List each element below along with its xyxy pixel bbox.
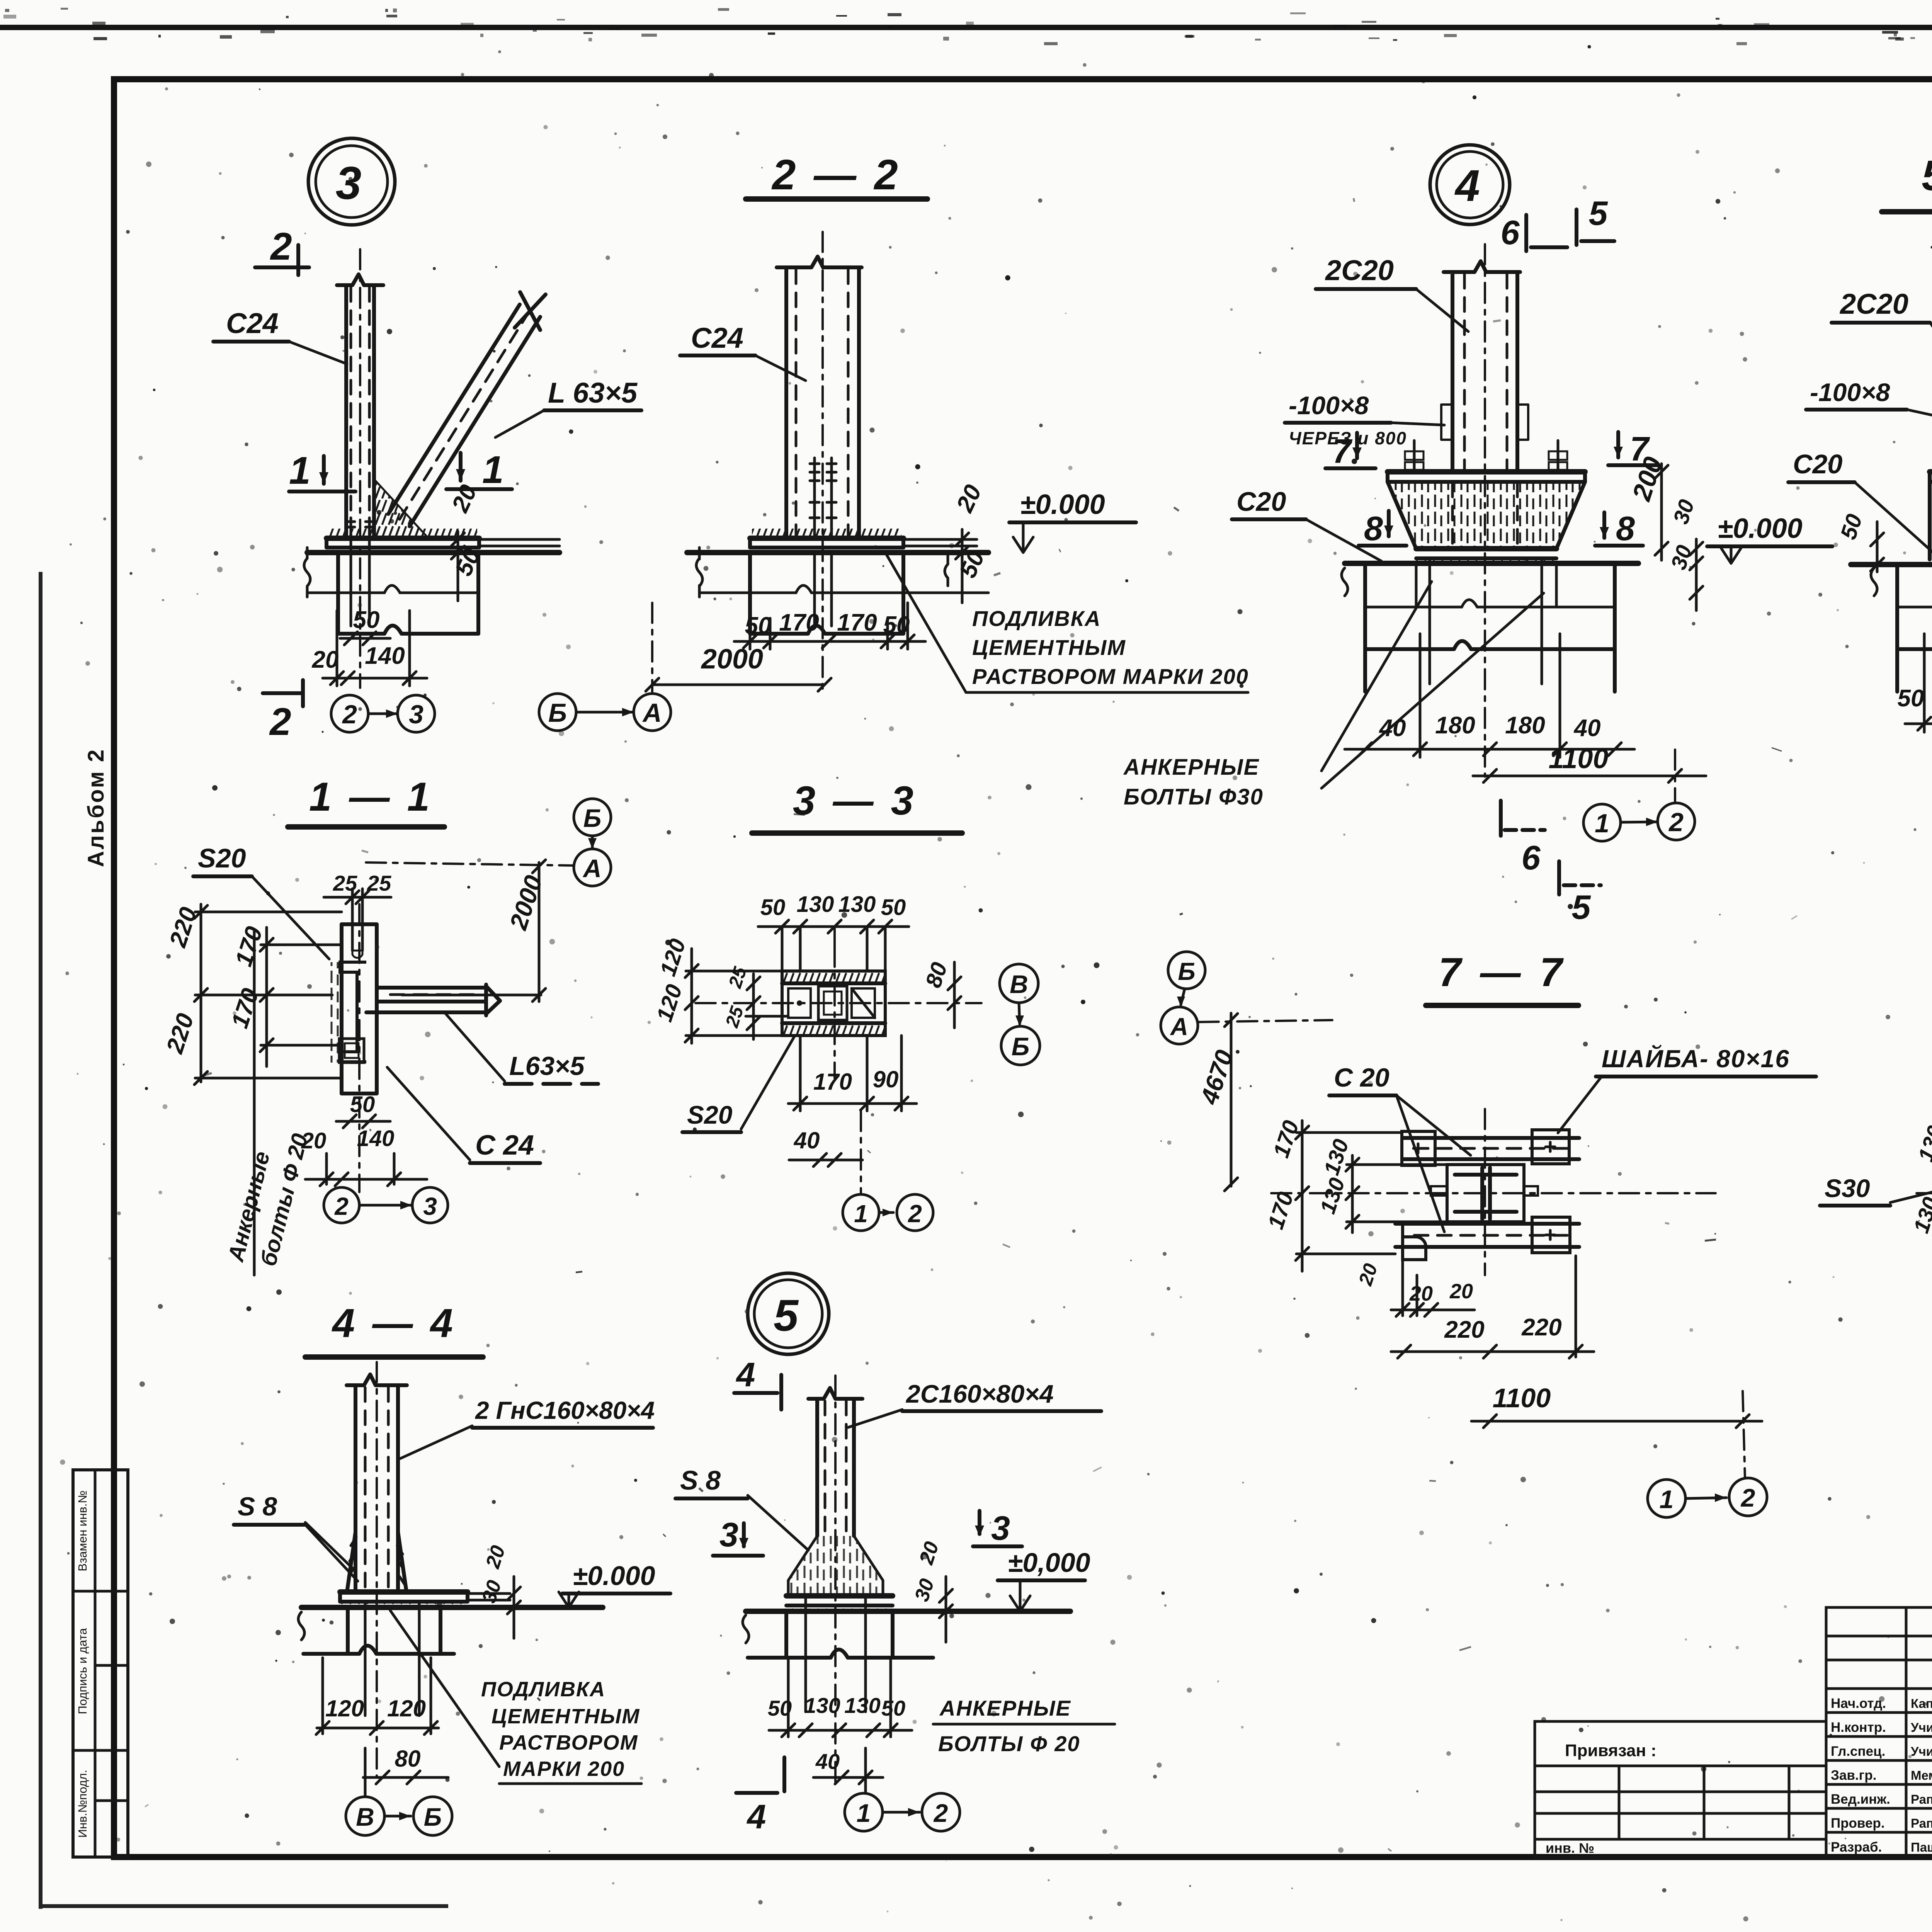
svg-text:Разраб.: Разраб. bbox=[1831, 1840, 1882, 1855]
svg-text:4 — 4: 4 — 4 bbox=[332, 1301, 456, 1346]
svg-text:ЦЕМЕНТНЫМ: ЦЕМЕНТНЫМ bbox=[492, 1705, 640, 1728]
svg-text:С20: С20 bbox=[1236, 486, 1286, 517]
base plate bbox=[340, 1592, 510, 1602]
dim row 50 130 130 50 bbox=[768, 1658, 912, 1737]
cap plate bbox=[1388, 472, 1585, 482]
svg-text:Альбом 2: Альбом 2 bbox=[83, 748, 109, 867]
grid link 1-2 bbox=[1685, 1493, 1726, 1502]
plate in plan bbox=[342, 904, 377, 1192]
dim 170 90 bbox=[788, 1036, 917, 1111]
angle beam to the right bbox=[366, 985, 500, 1015]
node marker 4 bbox=[1430, 145, 1510, 224]
svg-text:Нач.отд.: Нач.отд. bbox=[1831, 1696, 1886, 1711]
svg-text:Вед.инж.: Вед.инж. bbox=[1831, 1792, 1890, 1807]
brace L63x5 bbox=[388, 292, 546, 526]
dim 20 small bottom bbox=[1354, 1260, 1475, 1316]
svg-text:140: 140 bbox=[365, 643, 405, 669]
grid line to A bbox=[366, 862, 574, 866]
shoe trapezoid body bbox=[1388, 482, 1585, 549]
dim 220 220 left bbox=[161, 904, 342, 1085]
svg-text:1: 1 bbox=[1595, 809, 1609, 838]
svg-text:20: 20 bbox=[1449, 1280, 1473, 1303]
svg-text:3 — 3: 3 — 3 bbox=[793, 778, 917, 823]
base plate bbox=[786, 1596, 893, 1605]
grid bubble B upper bbox=[574, 799, 611, 836]
svg-text:В: В bbox=[1010, 970, 1028, 998]
svg-text:±0.000: ±0.000 bbox=[1020, 489, 1105, 520]
svg-text:инв. №: инв. № bbox=[1546, 1840, 1594, 1856]
svg-text:5: 5 bbox=[774, 1291, 799, 1340]
anchor bolts with thread bbox=[810, 458, 836, 538]
dim row 50 130 130 50 bbox=[758, 892, 909, 971]
label S20 bbox=[682, 1036, 794, 1132]
svg-text:ПОДЛИВКА: ПОДЛИВКА bbox=[972, 606, 1101, 631]
dim 20 plate thickness bbox=[447, 481, 482, 601]
grid bubble 2 bbox=[331, 695, 368, 732]
grid line A horizontal bbox=[1199, 1020, 1332, 1022]
svg-text:3: 3 bbox=[719, 1515, 738, 1554]
svg-text:2: 2 bbox=[334, 1192, 349, 1220]
dim 20 140 bbox=[301, 1126, 427, 1186]
label 2C20 bbox=[1316, 254, 1468, 332]
dim 170 170 left bbox=[1263, 1117, 1402, 1271]
paper top edge line bbox=[0, 25, 1932, 30]
svg-text:L63×5: L63×5 bbox=[509, 1051, 585, 1081]
svg-text:Гл.спец.: Гл.спец. bbox=[1831, 1744, 1885, 1759]
svg-text:±0.000: ±0.000 bbox=[573, 1561, 655, 1591]
dim 170 170 left bbox=[226, 923, 340, 1066]
bottom angle run bbox=[1395, 1224, 1579, 1247]
section title 3-3 bbox=[752, 778, 962, 833]
dim 220 220 bbox=[1391, 1256, 1594, 1358]
column section centre bbox=[1431, 1165, 1538, 1222]
column C24 section bbox=[777, 232, 862, 692]
grid bubble V bbox=[346, 1797, 384, 1835]
svg-text:50: 50 bbox=[881, 1696, 905, 1720]
svg-text:20: 20 bbox=[301, 1128, 327, 1153]
svg-text:3: 3 bbox=[409, 700, 423, 729]
section mark 7 left bbox=[1325, 432, 1376, 470]
base plate plan bbox=[696, 947, 981, 1078]
svg-text:40: 40 bbox=[1573, 715, 1601, 742]
grid link B-A bbox=[576, 708, 634, 716]
washer plate top left bbox=[1402, 1131, 1435, 1165]
section cut mark 4 bottom bbox=[736, 1757, 784, 1836]
svg-text:120: 120 bbox=[387, 1696, 426, 1721]
svg-text:50: 50 bbox=[350, 1092, 375, 1117]
label C20 bbox=[1329, 1063, 1471, 1232]
svg-text:S 8: S 8 bbox=[680, 1465, 721, 1495]
grid bubble 2 bbox=[1658, 803, 1695, 840]
svg-text:50: 50 bbox=[353, 607, 380, 633]
grid link 1-2 bbox=[883, 1808, 920, 1816]
svg-text:Подпись и дата: Подпись и дата bbox=[76, 1628, 89, 1714]
svg-text:180: 180 bbox=[1505, 712, 1545, 739]
dim row 50 170 170 50 bbox=[1898, 634, 1932, 732]
svg-text:4: 4 bbox=[1454, 161, 1480, 211]
svg-text:Н.контр.: Н.контр. bbox=[1831, 1720, 1886, 1735]
svg-text:25: 25 bbox=[367, 871, 391, 895]
grid bubble A lower bbox=[574, 849, 611, 886]
svg-text:130: 130 bbox=[844, 1693, 880, 1718]
column 2C20 bbox=[1444, 244, 1520, 777]
grid link 1-2 bbox=[879, 1209, 893, 1216]
VIEWS bbox=[213, 138, 641, 743]
svg-text:40: 40 bbox=[794, 1128, 820, 1153]
svg-text:170: 170 bbox=[779, 609, 819, 636]
svg-text:180: 180 bbox=[1435, 712, 1475, 739]
svg-text:Рапопорт: Рапопорт bbox=[1911, 1816, 1932, 1830]
svg-text:20: 20 bbox=[1409, 1282, 1433, 1305]
node marker 5 bbox=[748, 1273, 829, 1354]
section title 7-7 bbox=[1426, 950, 1578, 1005]
svg-text:-100×8: -100×8 bbox=[1810, 378, 1890, 406]
node marker 3 bbox=[308, 138, 395, 225]
dim 50 bbox=[336, 1092, 390, 1128]
svg-text:S20: S20 bbox=[687, 1100, 733, 1129]
svg-text:7 — 7: 7 — 7 bbox=[1439, 950, 1566, 995]
section mark 2 top bbox=[255, 225, 309, 275]
svg-text:Б: Б bbox=[1178, 957, 1195, 985]
svg-text:АНКЕРНЫЕ: АНКЕРНЫЕ bbox=[1123, 755, 1260, 780]
bolt at top bbox=[352, 889, 362, 958]
svg-text:130: 130 bbox=[804, 1693, 840, 1718]
grid bubble A bbox=[634, 694, 671, 731]
centre line down to bubble bbox=[860, 1111, 862, 1194]
main stamp grid bbox=[1826, 1607, 1932, 1857]
section title 1-1 bbox=[288, 774, 444, 827]
column 2C160x80x4 bbox=[808, 1376, 862, 1785]
dim 2000 right bbox=[402, 860, 548, 1002]
svg-text:А: А bbox=[582, 854, 602, 883]
dim 30 30 plate grout bbox=[1666, 497, 1703, 611]
anchor bolts below bbox=[806, 1596, 866, 1712]
note podlivka cement bbox=[885, 552, 1249, 692]
svg-text:90: 90 bbox=[873, 1066, 899, 1092]
svg-text:2: 2 bbox=[1740, 1483, 1755, 1512]
ground line bbox=[301, 1605, 603, 1610]
shoe channels bbox=[1930, 482, 1932, 560]
centrelines bbox=[1484, 1109, 1486, 1275]
grid bubble 1 bbox=[843, 1194, 879, 1231]
svg-text:Взамен инв.№: Взамен инв.№ bbox=[76, 1490, 89, 1571]
dim 40 bbox=[789, 1128, 862, 1167]
svg-text:170: 170 bbox=[813, 1069, 852, 1095]
label L63x5 bbox=[445, 1013, 598, 1084]
section cut mark 6 top bbox=[1501, 213, 1567, 252]
grid link B-A bbox=[1177, 989, 1185, 1007]
svg-text:БОЛТЫ Ф 20: БОЛТЫ Ф 20 bbox=[938, 1731, 1080, 1756]
svg-text:8: 8 bbox=[1616, 509, 1635, 548]
svg-text:С 24: С 24 bbox=[475, 1130, 534, 1161]
svg-text:2С20: 2С20 bbox=[1325, 254, 1394, 286]
svg-text:2: 2 bbox=[933, 1799, 948, 1827]
anchor bolts below bbox=[365, 1602, 419, 1716]
foundation below ground bbox=[1871, 565, 1932, 692]
svg-text:2000: 2000 bbox=[701, 644, 763, 675]
level mark 0.000 bbox=[998, 1548, 1090, 1611]
grid bubble 1 bbox=[845, 1793, 883, 1831]
svg-text:С24: С24 bbox=[691, 322, 743, 354]
anchor bolts below bbox=[815, 553, 832, 626]
dim 50 bolt offset bbox=[340, 607, 390, 645]
grid bubble A bbox=[1161, 1007, 1198, 1044]
svg-text:1 — 1: 1 — 1 bbox=[309, 774, 433, 820]
foundation below ground bbox=[743, 1611, 933, 1658]
section cut mark 4 top bbox=[734, 1355, 781, 1410]
dim row 50 170 170 50 bbox=[734, 603, 925, 649]
dim 25 25 left inner bbox=[722, 964, 760, 1039]
base plate bbox=[750, 529, 977, 548]
svg-text:L 63×5: L 63×5 bbox=[548, 377, 638, 409]
dim 2000 bbox=[646, 603, 831, 692]
anchor bolts M20 bbox=[347, 518, 373, 626]
grid bubble B bbox=[1168, 952, 1205, 989]
gusset weld hatch bbox=[374, 479, 428, 538]
slanted note anchor bolts F20 bbox=[223, 931, 313, 1275]
svg-text:120: 120 bbox=[325, 1696, 364, 1721]
dim 80 right bbox=[921, 959, 961, 1028]
svg-text:2 — 2: 2 — 2 bbox=[771, 151, 901, 199]
svg-text:50: 50 bbox=[881, 895, 906, 920]
washer plate bottom right bbox=[1532, 1217, 1570, 1253]
dim 25 25 top bbox=[324, 871, 391, 904]
left margin stamp boxes bbox=[73, 1470, 128, 1857]
ground line bbox=[1345, 561, 1638, 566]
svg-text:Б: Б bbox=[548, 698, 567, 728]
grid bubble B bbox=[413, 1797, 452, 1835]
dim 130 130 inner bbox=[1315, 1136, 1447, 1233]
ground line bbox=[687, 550, 988, 555]
base wings bbox=[347, 1532, 406, 1592]
dim 120 120 left bbox=[652, 936, 782, 1043]
grid link 2-3 bbox=[368, 709, 398, 718]
svg-text:РАСТВОРОМ МАРКИ 200: РАСТВОРОМ МАРКИ 200 bbox=[972, 664, 1249, 689]
grid bubble B bbox=[539, 694, 576, 731]
svg-text:5: 5 bbox=[1572, 888, 1591, 926]
section mark 8 right bbox=[1595, 509, 1643, 548]
svg-text:6: 6 bbox=[1522, 838, 1541, 877]
dim 20 140 row bbox=[312, 611, 427, 686]
svg-text:40: 40 bbox=[815, 1749, 840, 1774]
anchor bolts above cap bbox=[1405, 440, 1567, 472]
svg-text:МАРКИ 200: МАРКИ 200 bbox=[503, 1757, 625, 1781]
paper bottom-left edge line bbox=[39, 1904, 448, 1908]
section title 4-4 bbox=[305, 1301, 483, 1357]
svg-text:Рапопорт: Рапопорт bbox=[1911, 1792, 1932, 1806]
svg-text:2: 2 bbox=[269, 700, 291, 743]
svg-text:В: В bbox=[356, 1803, 374, 1831]
dim 50 left bbox=[1836, 511, 1884, 572]
grid bubble 2 bbox=[324, 1187, 359, 1223]
svg-text:7: 7 bbox=[1332, 432, 1353, 470]
svg-text:25: 25 bbox=[333, 871, 357, 895]
dim 20 plate bbox=[951, 481, 987, 603]
grid bubble 2 bbox=[897, 1194, 933, 1231]
foundation below ground bbox=[304, 548, 478, 634]
foundation below ground bbox=[696, 548, 988, 634]
batten plates -100x8 bbox=[1441, 405, 1528, 440]
grid link V-B bbox=[384, 1812, 411, 1820]
label shayba 80x16 bbox=[1558, 1044, 1816, 1133]
svg-text:220: 220 bbox=[1444, 1316, 1484, 1343]
section title 5-5 bbox=[1882, 152, 1932, 212]
svg-text:220: 220 bbox=[1521, 1314, 1561, 1341]
svg-text:Учитель: Учитель bbox=[1911, 1744, 1932, 1759]
label 2GnC160x80x4 bbox=[400, 1396, 655, 1459]
section title 2-2 bbox=[746, 151, 927, 199]
grid link B-A vertical bbox=[588, 836, 597, 849]
section mark 3 left bbox=[713, 1515, 763, 1556]
lower bolt washer bbox=[339, 1039, 364, 1063]
svg-text:1100: 1100 bbox=[1549, 743, 1609, 774]
dim 130 130 left bbox=[1908, 1121, 1932, 1271]
label 2C20 bbox=[1832, 288, 1932, 373]
section mark 7 right bbox=[1608, 430, 1658, 468]
dim 1100 bbox=[1471, 1383, 1762, 1478]
dim 120 120 bbox=[316, 1658, 439, 1735]
svg-text:±0,000: ±0,000 bbox=[1008, 1548, 1090, 1578]
grid link 2-3 bbox=[359, 1201, 412, 1209]
dim 80 bbox=[363, 1746, 448, 1796]
svg-text:±0.000: ±0.000 bbox=[1718, 513, 1803, 544]
label S20 bbox=[193, 843, 329, 959]
svg-text:3: 3 bbox=[336, 157, 362, 209]
level mark 0.000 bbox=[1707, 513, 1832, 563]
svg-text:Инв.№подл.: Инв.№подл. bbox=[76, 1770, 89, 1838]
grout pad bbox=[340, 1602, 468, 1607]
grid link V-B bbox=[1015, 1003, 1024, 1026]
svg-text:С24: С24 bbox=[226, 307, 279, 339]
dim 4670 vertical bbox=[1195, 1013, 1238, 1191]
svg-text:2: 2 bbox=[342, 700, 357, 729]
grid bubble 1 bbox=[1583, 804, 1621, 841]
base plate bbox=[327, 529, 560, 548]
column 2GnC160x80x4 bbox=[347, 1362, 407, 1777]
flare skirt bbox=[788, 1536, 883, 1596]
svg-text:3: 3 bbox=[991, 1509, 1010, 1547]
grid bubble 3 bbox=[412, 1187, 448, 1223]
foundation below ground bbox=[298, 1607, 454, 1654]
svg-text:1: 1 bbox=[1660, 1485, 1674, 1514]
grout pad bbox=[750, 548, 903, 553]
svg-text:ЦЕМЕНТНЫМ: ЦЕМЕНТНЫМ bbox=[972, 635, 1126, 660]
grid bubble 3 bbox=[398, 695, 435, 732]
svg-text:ШАЙБА- 80×16: ШАЙБА- 80×16 bbox=[1602, 1044, 1790, 1073]
section mark 2 bottom bbox=[263, 680, 303, 743]
ground line bbox=[307, 550, 560, 555]
svg-text:ПОДЛИВКА: ПОДЛИВКА bbox=[481, 1678, 605, 1701]
label S30 bbox=[1820, 1174, 1932, 1206]
svg-text:РАСТВОРОМ: РАСТВОРОМ bbox=[499, 1731, 638, 1754]
svg-text:5 — 5: 5 — 5 bbox=[1922, 152, 1932, 199]
label -100x8 cherez 800 bbox=[1285, 391, 1444, 448]
svg-text:2: 2 bbox=[908, 1200, 922, 1228]
label C24 bbox=[387, 1067, 540, 1163]
label 2C160x80x4 bbox=[848, 1379, 1101, 1427]
svg-text:Зав.гр.: Зав.гр. bbox=[1831, 1768, 1876, 1783]
section mark 8 left bbox=[1359, 509, 1406, 548]
svg-text:Учитель: Учитель bbox=[1911, 1720, 1932, 1735]
label C24 bbox=[213, 307, 347, 364]
label -100x8 bbox=[1806, 378, 1932, 421]
svg-text:40: 40 bbox=[1379, 715, 1406, 742]
column C24 bbox=[337, 249, 383, 688]
svg-text:20: 20 bbox=[312, 646, 339, 673]
svg-text:8: 8 bbox=[1364, 509, 1383, 548]
svg-text:140: 140 bbox=[357, 1126, 395, 1151]
grout pad bbox=[786, 1605, 893, 1611]
svg-text:6: 6 bbox=[1501, 213, 1520, 252]
svg-text:2: 2 bbox=[1668, 808, 1684, 837]
grid link 1-2 bbox=[1621, 818, 1658, 826]
washer plate top right bbox=[1532, 1130, 1569, 1164]
level mark 0.000 bbox=[1009, 489, 1136, 553]
grout pad bbox=[1930, 560, 1932, 565]
note anchor bolts F20 bbox=[933, 1696, 1115, 1756]
label C20 bbox=[1788, 449, 1932, 556]
svg-text:Б: Б bbox=[1012, 1032, 1030, 1061]
dim 1100 bbox=[1473, 743, 1706, 803]
grid bubble 2 bbox=[1729, 1478, 1767, 1516]
svg-text:А: А bbox=[1170, 1013, 1188, 1041]
svg-text:130: 130 bbox=[797, 892, 834, 917]
top angle run bbox=[1403, 1138, 1579, 1159]
foundation below ground bbox=[1342, 563, 1615, 692]
svg-text:-100×8: -100×8 bbox=[1289, 391, 1369, 420]
svg-text:Мемибовская: Мемибовская bbox=[1911, 1768, 1932, 1782]
svg-text:2 ГнС160×80×4: 2 ГнС160×80×4 bbox=[475, 1396, 655, 1424]
svg-text:1: 1 bbox=[482, 448, 504, 492]
svg-text:Б: Б bbox=[424, 1803, 442, 1831]
note podlivka bbox=[390, 1611, 641, 1784]
section cut mark 6 bottom bbox=[1501, 801, 1545, 877]
svg-text:S20: S20 bbox=[198, 843, 246, 873]
label S8 bbox=[234, 1492, 358, 1581]
cap plate bbox=[1930, 472, 1932, 482]
svg-text:1: 1 bbox=[289, 449, 311, 492]
svg-text:БОЛТЫ Ф30: БОЛТЫ Ф30 bbox=[1124, 784, 1264, 810]
dim row 40 180 180 40 bbox=[1345, 634, 1634, 757]
svg-text:Капитульский: Капитульский bbox=[1911, 1696, 1932, 1711]
svg-text:А: А bbox=[642, 698, 662, 728]
section cut mark 5 top bbox=[1577, 194, 1614, 245]
svg-text:50: 50 bbox=[1898, 685, 1924, 712]
ground line bbox=[1851, 562, 1932, 567]
svg-text:АНКЕРНЫЕ: АНКЕРНЫЕ bbox=[939, 1696, 1071, 1720]
dim 40 bbox=[813, 1748, 883, 1793]
svg-text:Пащенко: Пащенко bbox=[1911, 1840, 1932, 1854]
svg-text:Провер.: Провер. bbox=[1831, 1816, 1885, 1831]
level mark 0.000 bbox=[559, 1561, 670, 1607]
svg-text:4: 4 bbox=[736, 1355, 755, 1394]
TITLEBLOCK bbox=[1535, 1542, 1932, 1916]
svg-text:S30: S30 bbox=[1825, 1174, 1870, 1202]
section marks 1 bbox=[289, 449, 355, 492]
grout pad bbox=[1416, 558, 1556, 563]
svg-text:1: 1 bbox=[857, 1799, 871, 1827]
svg-text:1100: 1100 bbox=[1493, 1383, 1551, 1413]
svg-text:2: 2 bbox=[270, 225, 292, 268]
grid bubble 2 bbox=[922, 1793, 960, 1831]
bent hook bottom left bbox=[1403, 1224, 1426, 1260]
grid bubble V bbox=[1000, 964, 1038, 1003]
svg-text:S 8: S 8 bbox=[238, 1492, 277, 1521]
svg-text:3: 3 bbox=[423, 1192, 437, 1220]
svg-text:1: 1 bbox=[854, 1200, 868, 1228]
label S8 bbox=[675, 1465, 808, 1550]
svg-text:С 20: С 20 bbox=[1334, 1063, 1389, 1092]
